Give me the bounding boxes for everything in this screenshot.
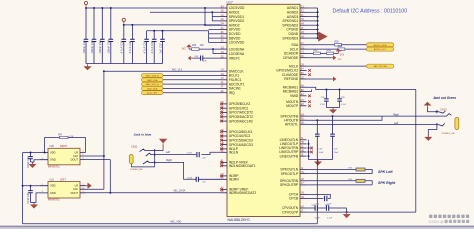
- svg-text:DOUT: DOUT: [71, 158, 79, 162]
- wire ground bus below caps: [86, 63, 163, 65]
- no-ERC cross MOUTP: [308, 105, 311, 108]
- pin stub left GPIO13/BCLK3: [221, 131, 228, 133]
- wire MCLK: [307, 65, 367, 67]
- capacitor C40 2.2uF flying: [325, 196, 331, 202]
- wire right-in jog: [158, 162, 196, 179]
- capacitor C36 4.7uF: [130, 25, 135, 64]
- pin stub right I2CADDR: [300, 52, 307, 54]
- svg-text:100nF C32: 100nF C32: [90, 40, 94, 54]
- ground arrow micbias caps: [329, 108, 337, 114]
- junction gnd bus y12.3: [317, 11, 319, 13]
- svg-text:LDO2VDD: LDO2VDD: [229, 41, 245, 45]
- pin stub right LINEOUTRN: [300, 147, 307, 149]
- pin stub left GPIO8/DACDT2: [221, 116, 228, 118]
- svg-text:100nF C31: 100nF C31: [82, 40, 86, 54]
- wire SDA 2: [342, 44, 367, 46]
- svg-text:MIC_DATA: MIC_DATA: [174, 189, 186, 192]
- microphone U21 MP34DT01 LEFT: [40, 178, 86, 201]
- pin stub right SPKGND1: [300, 20, 307, 22]
- wire DCVDD branch: [209, 33, 221, 35]
- ferrite bead FB1 1R5: [348, 168, 365, 172]
- capacitor C43 100nF mic2: [28, 186, 33, 203]
- svg-text:3V3: 3V3: [340, 55, 345, 57]
- svg-text:1uF: 1uF: [203, 61, 207, 63]
- svg-text:SPK Right: SPK Right: [378, 181, 396, 185]
- svg-text:100nF C42: 100nF C42: [28, 156, 30, 168]
- pin stub right SPKOUTFB: [300, 115, 307, 117]
- wire jack gnd route: [428, 125, 437, 137]
- wire left-in: [158, 154, 196, 156]
- sheet bottom frame line: [0, 226, 474, 228]
- svg-text:GND: GND: [50, 158, 56, 162]
- svg-text:R50: R50: [335, 42, 340, 44]
- pin stub right SPKOUTRP: [300, 184, 307, 186]
- pin stub left VREFC: [221, 57, 228, 59]
- wire LINEOUTR jog: [307, 116, 383, 120]
- wire micbias cap gnd rail: [326, 107, 339, 109]
- ground arrow mic1: [29, 162, 37, 168]
- svg-text:2.2uF: 2.2uF: [327, 217, 333, 219]
- wire U20 CLK tap: [86, 155, 104, 157]
- wire U20 VDD feed: [23, 152, 40, 154]
- junction bus1-v1: [204, 7, 206, 9]
- capacitor C28 lineout: [315, 120, 320, 159]
- net port AUDIO_SCL: [366, 47, 394, 51]
- pin stub right SPKGND2: [300, 24, 307, 26]
- wire SPK Left P: [307, 173, 373, 175]
- pin stub right LINEOUTLN: [300, 139, 307, 141]
- pin stub right GPIO1/MCLK2: [300, 69, 307, 71]
- ground arrow charge pump: [343, 212, 351, 218]
- power port 3V3 top-left: [84, 1, 87, 6]
- pin stub right SPKOUTRN: [300, 180, 307, 182]
- power arrow jack detect: [424, 102, 432, 108]
- resistor R50: [335, 42, 342, 46]
- svg-text:LR: LR: [75, 150, 78, 154]
- wire Audio_INT to pin: [163, 92, 221, 94]
- pin stub left SPKVDD2: [221, 20, 228, 22]
- no-ERC cross GPIO y116.8: [220, 116, 223, 119]
- svg-text:NAU88L25YG: NAU88L25YG: [228, 218, 250, 222]
- no-ERC cross GPIO y112.5: [220, 111, 223, 114]
- pin stub right AGND2: [300, 11, 307, 13]
- pin stub left LDO1VDD: [221, 7, 228, 9]
- svg-text:Jack in blue: Jack in blue: [134, 132, 152, 136]
- junction avdd feed: [211, 11, 213, 13]
- wire R46 to LDO1ENA: [189, 48, 192, 50]
- resistor R46 10K: [192, 45, 205, 50]
- svg-text:SPKOUTLP: SPKOUTLP: [281, 172, 299, 176]
- ground arrow jack CN10: [424, 135, 432, 141]
- svg-text:U21: U21: [50, 178, 55, 181]
- pin stub left IN1LP: [221, 148, 228, 150]
- power arrow left VREFC: [188, 56, 193, 61]
- pin stub left DBVDD: [221, 37, 228, 39]
- pin stub right VMID: [300, 95, 307, 97]
- svg-text:100nF C34: 100nF C34: [107, 40, 111, 54]
- svg-text:Left: Left: [394, 122, 398, 125]
- svg-text:IRQ: IRQ: [229, 91, 235, 95]
- pin stub left IN2LP-VREF: [221, 161, 228, 163]
- svg-text:4.7uF C30: 4.7uF C30: [150, 40, 154, 53]
- svg-text:CPCB: CPCB: [289, 197, 299, 201]
- capacitor C10 4.7uF: [144, 31, 149, 64]
- svg-text:C108: C108: [187, 177, 193, 179]
- ground arrow lineout: [314, 160, 322, 166]
- audio jack CN10 contacts: [435, 110, 451, 126]
- svg-text:AUDIO_SDA: AUDIO_SDA: [374, 44, 387, 47]
- wire SPK Left N tail: [365, 170, 372, 174]
- pin stub right HPOUTL: [300, 123, 307, 125]
- junction bus1 C34: [110, 7, 112, 9]
- ground arrow AGND bus: [318, 32, 327, 42]
- svg-text:LINEOUTFB: LINEOUTFB: [280, 154, 299, 158]
- pin stub left LDO2ENA: [221, 53, 228, 55]
- wire CPCB lead: [307, 198, 324, 200]
- wire LDO2ENA feed: [213, 49, 221, 54]
- pin stub right LINEOUTRP: [300, 151, 307, 153]
- power arrow 3V3 ldo: [186, 44, 192, 49]
- pin stub left GPIO15/DACD3: [221, 139, 228, 141]
- wire AGND bus vertical: [317, 8, 319, 38]
- pin stub left IRQ: [221, 92, 228, 94]
- wire AVDD1 feed: [150, 11, 221, 13]
- svg-text:Default I2C Address : 00110100: Default I2C Address : 00110100: [333, 9, 408, 15]
- junction clk tap: [103, 155, 105, 157]
- ground arrow jack CN11 detect: [159, 139, 167, 151]
- svg-text:IN1LN: IN1LN: [229, 151, 239, 155]
- svg-text:4.7uF C10: 4.7uF C10: [142, 40, 146, 53]
- resistor R52: [313, 50, 320, 54]
- capacitor C35 4.7uF: [122, 25, 127, 64]
- wire AVDD bus: [124, 24, 221, 26]
- wire vertical SPKVDD feed: [212, 12, 220, 21]
- svg-text:R52: R52: [313, 50, 318, 52]
- no-ERC cross GPIO y131.7: [220, 130, 223, 133]
- svg-text:LEFT: LEFT: [60, 178, 66, 181]
- wire I2CADDR tail: [334, 52, 339, 54]
- pin stub right MOUTN: [300, 101, 307, 103]
- svg-text:4.7uF: 4.7uF: [341, 104, 347, 106]
- pin stub right MICBIAS1: [300, 86, 307, 88]
- pin stub left UPVDD: [221, 29, 228, 31]
- svg-text:CIFMODE: CIFMODE: [283, 56, 299, 60]
- pin stub left AVDD1: [221, 11, 228, 13]
- capacitor C41 2.2uF: [307, 205, 347, 211]
- capacitor C30 4.7uF: [152, 31, 157, 64]
- no-ERC cross GPIO y108.2: [220, 107, 223, 110]
- resistor R53: [327, 50, 334, 54]
- svg-text:AUDIO_SCL: AUDIO_SCL: [374, 48, 387, 51]
- wire gnd row y12.3: [307, 11, 318, 13]
- svg-text:VDD: VDD: [50, 150, 56, 154]
- pin stub right MICBIAS2: [300, 91, 307, 93]
- wire vertical link bus1 to AVDD2 row: [205, 8, 221, 25]
- svg-text:Jack out Green: Jack out Green: [433, 96, 456, 100]
- wire SPK Left N: [307, 169, 357, 171]
- svg-text:10nF: 10nF: [334, 152, 339, 154]
- no-ERC cross IN pin y165.8: [220, 165, 223, 168]
- capacitor C38 1uF: [193, 56, 221, 61]
- net port SAI2_MCLKA: [366, 64, 394, 68]
- wire U20 GND: [31, 160, 41, 162]
- pin stub left GPIO5/BCLK2: [221, 103, 228, 105]
- ground arrow mic2: [30, 203, 38, 209]
- wire SDA: [307, 44, 335, 46]
- capacitor C31 100nF: [84, 8, 89, 64]
- junction gnd bus y29.5: [317, 29, 319, 31]
- svg-text:MP34DT01: MP34DT01: [48, 166, 60, 168]
- ferrite bead FB2 1R5: [348, 179, 365, 183]
- svg-text:GND: GND: [50, 191, 56, 195]
- pin stub left DACIN1: [221, 87, 228, 89]
- wire jack detect: [428, 108, 437, 112]
- wire CPVOUTP riser: [415, 90, 417, 213]
- power arrow U21 LR: [86, 183, 92, 189]
- wire SCLK 2: [345, 48, 367, 50]
- junction U21 cap tap: [30, 185, 32, 187]
- pin stub right CPGND: [300, 29, 307, 31]
- wire U21 CLK: [86, 188, 104, 190]
- junction LDO enable split: [212, 48, 214, 50]
- svg-text:LDO2ENA: LDO2ENA: [229, 52, 245, 56]
- junction R47 vdd: [44, 152, 46, 154]
- wire gnd row y16.6: [307, 16, 318, 18]
- wire SPK Right N: [307, 180, 357, 182]
- watermark line1: [429, 215, 469, 218]
- junction cpv gnd: [346, 211, 348, 213]
- pin stub right AGND3: [300, 16, 307, 18]
- capacitor C34 100nF: [109, 8, 114, 64]
- pin stub left IN2RP-VREF: [221, 188, 228, 190]
- wire mic CLK bus: [103, 71, 105, 189]
- wire UPVDD branch: [209, 29, 221, 31]
- pin stub right SPKOUTLN: [300, 169, 307, 171]
- junction gnd bus y16.6: [317, 16, 319, 18]
- junction hp bus y143.9: [308, 143, 310, 145]
- junction hp bus y152.0: [308, 151, 310, 153]
- net port SAI2_SDA: [142, 86, 164, 90]
- jack CN11 sleeve: [129, 155, 133, 164]
- power arrow REFGND: [331, 77, 336, 82]
- pin stub right CLKMODE: [300, 74, 307, 76]
- no-ERC cross MCLK2: [308, 69, 311, 72]
- wire I2CADDR mid: [320, 52, 326, 54]
- wire R47 row: [45, 137, 60, 139]
- wire SPK Right P: [307, 184, 373, 186]
- wire MICBIAS2 feed: [307, 90, 312, 92]
- junction hp bus y148.0: [308, 147, 310, 149]
- wire U20 DOUT tap: [86, 159, 111, 161]
- net port AUDIO_SDA: [366, 43, 394, 47]
- svg-text:10K: 10K: [200, 45, 205, 47]
- svg-text:Left: Left: [166, 151, 170, 154]
- junction lineout cap1: [316, 119, 318, 121]
- junction gnd bus y38.1: [317, 37, 319, 39]
- no-ERC cross CLKMODE: [308, 73, 311, 76]
- wire UPVDD vertical feed: [208, 31, 210, 43]
- svg-text:10nF: 10nF: [319, 152, 324, 154]
- wire R47 left drop: [44, 138, 46, 153]
- svg-text:SAI2_SDB_A: SAI2_SDB_A: [146, 75, 160, 78]
- pin stub left BCLK1: [221, 75, 228, 77]
- svg-text:REFGND: REFGND: [284, 77, 299, 81]
- wire U21 VDD feed: [23, 185, 40, 187]
- svg-text:GPIO9/ADCLR2: GPIO9/ADCLR2: [229, 119, 253, 123]
- svg-text:1uF C37: 1uF C37: [158, 43, 162, 54]
- pin stub right MCLK: [300, 65, 307, 67]
- junction v1-bus2: [204, 24, 206, 26]
- pin stub left IN1RN: [221, 178, 228, 180]
- pin stub left GPIO6/LRC2: [221, 107, 228, 109]
- pin stub left FSLRC1: [221, 79, 228, 81]
- pin stub right LINEOUTLP: [300, 143, 307, 145]
- svg-text:U20: U20: [50, 145, 55, 148]
- pin stub left SPKVDD1: [221, 16, 228, 18]
- wire LINEOUTL to jack: [307, 124, 436, 126]
- pin stub right DGND: [300, 33, 307, 35]
- capacitor C33 100nF: [100, 8, 105, 64]
- no-ERC cross MOUTN: [308, 100, 311, 103]
- pin stub left IN1RP: [221, 175, 228, 177]
- svg-text:100nF C43: 100nF C43: [28, 192, 30, 204]
- wire SPK Right N tail: [365, 181, 372, 185]
- pin stub left IN2RN/DMICDAT2: [221, 192, 228, 194]
- svg-text:SAI2_SDA: SAI2_SDA: [147, 87, 158, 90]
- wire gnd row y25.2: [307, 24, 318, 26]
- svg-text:DOUT: DOUT: [71, 191, 79, 195]
- svg-text:Right: Right: [393, 114, 399, 117]
- pin stub right CIFMODE: [300, 57, 307, 59]
- junction dout joint: [109, 192, 111, 194]
- svg-text:SAI2_SCK_A: SAI2_SCK_A: [146, 83, 160, 86]
- no-ERC cross GPIO y103.9: [220, 103, 223, 106]
- svg-text:CLK: CLK: [73, 154, 78, 158]
- svg-text:MOUTP: MOUTP: [286, 104, 299, 108]
- pin stub left DMICCLK: [221, 70, 228, 72]
- pin stub left GPIO16/ADCD3: [221, 144, 228, 146]
- pin stub left GPIO14/LRC3: [221, 135, 228, 137]
- resistor R51: [338, 46, 345, 51]
- pin stub right MOUTP: [300, 105, 307, 107]
- capacitor C37 1uF: [160, 31, 165, 64]
- pin stub right CPVOUTN: [300, 207, 307, 209]
- svg-text:IN1RN: IN1RN: [229, 178, 240, 182]
- svg-text:SAI2_MCLKA: SAI2_MCLKA: [373, 65, 387, 68]
- svg-text:LR: LR: [75, 184, 78, 188]
- resistor R47 10K: [58, 134, 74, 138]
- audio jack CN11 contacts: [132, 149, 164, 167]
- pin stub left AVDD2: [221, 24, 228, 26]
- net port Audio_INT: [142, 91, 164, 95]
- wire MICBIAS1 feed: [307, 87, 416, 89]
- junction bus3 C30: [153, 30, 155, 32]
- wire DBVDD bus: [147, 30, 209, 32]
- wire REFGND lead: [307, 78, 332, 80]
- junction bus3 C37: [162, 30, 164, 32]
- pin stub right SPKGND3: [300, 37, 307, 39]
- wire AUXFB to jack tip: [307, 115, 444, 117]
- wire gnd row y38.1: [307, 37, 318, 39]
- no-ERC cross VMID: [308, 95, 311, 98]
- svg-text:U17: U17: [227, 0, 233, 4]
- svg-text:4.7uF C36: 4.7uF C36: [128, 40, 132, 53]
- svg-text:C107: C107: [187, 153, 193, 155]
- wire MIC_VDD long drop: [316, 160, 318, 224]
- junction gnd bus y20.9: [317, 20, 319, 22]
- pin stub right SPKOUTLP: [300, 173, 307, 175]
- wire R47 to LR: [68, 138, 86, 153]
- wire SAI2_SCK_A to pin: [163, 83, 221, 85]
- capacitor C42 100nF mic1: [28, 153, 33, 163]
- capacitor C32 100nF: [92, 8, 97, 64]
- svg-text:R46: R46: [192, 45, 197, 47]
- pin stub right SDA: [300, 44, 307, 46]
- junction bus1 left end: [85, 7, 87, 9]
- svg-text:HPOUTL: HPOUTL: [285, 123, 299, 127]
- wire MIC_VDD bottom run: [23, 223, 318, 225]
- no-ERC cross IN pin y162.4: [220, 161, 223, 164]
- IC U17 audio codec NAU88L25 body: [227, 4, 300, 216]
- no-ERC cross HPOUTRP: [310, 151, 313, 154]
- svg-text:RIGHT: RIGHT: [60, 145, 68, 148]
- pin stub left IN2LN/DMICDAT1: [221, 165, 228, 167]
- capacitor C30 4.7uF micbias: [324, 90, 329, 108]
- junction bus2 left end: [123, 24, 125, 26]
- pin stub right AGND1: [300, 7, 307, 9]
- wire gnd row y29.5: [307, 29, 318, 31]
- power arrow CIFMODE: [331, 55, 336, 60]
- wire gnd row y20.9: [307, 20, 318, 22]
- wire I2CADDR: [307, 52, 314, 54]
- pin stub left ADCOUT1: [221, 83, 228, 85]
- junction gnd bus y33.8: [317, 33, 319, 35]
- wire lineout gnd rail: [309, 159, 333, 161]
- no-ERC cross GPIO y144.6: [220, 143, 223, 146]
- svg-text:R51: R51: [338, 46, 343, 48]
- wire SAI2_SDB_A to pin: [163, 75, 221, 77]
- pin stub left GPIO9/ADCLR2: [221, 120, 228, 122]
- pin stub right REFGND: [300, 78, 307, 80]
- wire SAI2_SDA to pin: [163, 87, 221, 89]
- svg-text:SPKOUTRP: SPKOUTRP: [280, 183, 299, 187]
- junction micbias c38: [339, 89, 341, 91]
- junction micbias c30: [325, 89, 327, 91]
- no-ERC cross IN pin y189.4: [220, 188, 223, 191]
- wire U21 GND: [31, 193, 41, 203]
- no-ERC cross GPIO y136.0: [220, 135, 223, 138]
- pin stub right LINEOUTFB: [300, 155, 307, 157]
- junction micclk top: [103, 70, 105, 72]
- junction hp bus y156.1: [308, 155, 310, 157]
- svg-text:Audio_INT: Audio_INT: [147, 92, 158, 95]
- capacitor C29 lineout: [330, 116, 335, 159]
- no-ERC cross GPIO y140.3: [220, 139, 223, 142]
- power arrow 3V3 i2caddr: [336, 49, 342, 54]
- pin stub left LDO1ENA: [221, 48, 228, 50]
- pin stub right CPCB: [300, 198, 307, 200]
- net port SAI2_SCK_A: [142, 82, 164, 86]
- microphone U20 MP34DT01 RIGHT: [40, 145, 86, 168]
- junction U20 cap tap: [30, 152, 32, 154]
- ground arrow left cap bank: [84, 64, 92, 70]
- junction gnd bus y25.2: [317, 24, 319, 26]
- pin stub right SCLK: [300, 48, 307, 50]
- pin stub left IN1LN: [221, 151, 228, 153]
- svg-text:Right: Right: [166, 159, 172, 162]
- svg-text:VDD: VDD: [50, 184, 56, 188]
- wire SAI2_FSA to pin: [163, 79, 221, 81]
